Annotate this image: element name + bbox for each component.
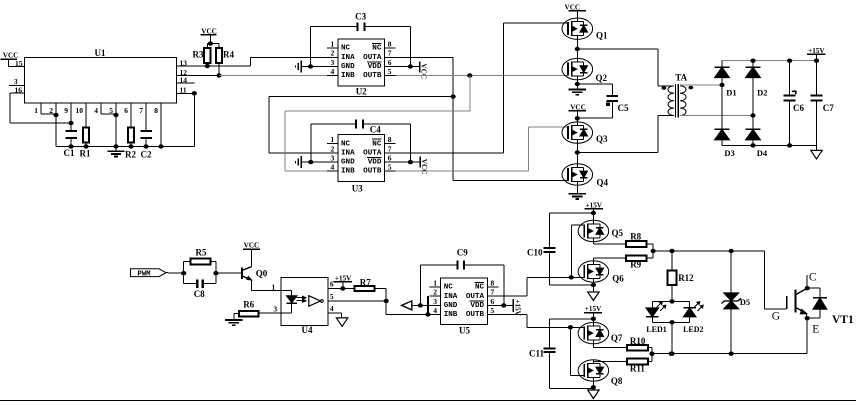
- wire R5/C8 right leg: [213, 262, 218, 284]
- svg-text:NC: NC: [341, 45, 351, 53]
- svg-text:7: 7: [388, 49, 392, 58]
- node R12/LED loop: [669, 299, 674, 303]
- wire emitter down: [806, 318, 808, 354]
- svg-text:Q3: Q3: [596, 134, 608, 144]
- svg-text:R8: R8: [630, 231, 641, 241]
- resistor R9: [626, 255, 646, 269]
- wire U2 OUTA to junction: [396, 57, 453, 180]
- svg-text:C1: C1: [64, 148, 75, 158]
- svg-text:3: 3: [273, 304, 277, 313]
- svg-text:3: 3: [331, 58, 335, 67]
- capacitor C3: [355, 12, 366, 32]
- svg-text:6: 6: [330, 279, 334, 288]
- ground (Q6, triangle): [588, 292, 599, 301]
- node OUTA/INA/Q4: [451, 94, 456, 98]
- svg-text:14: 14: [180, 75, 188, 84]
- resistor R8: [626, 231, 646, 247]
- wire pin15 to U1: [8, 66, 24, 68]
- U1 pin 10 number: [76, 106, 84, 115]
- svg-text:Q7: Q7: [611, 333, 623, 343]
- wire pin4 to pin5: [101, 113, 116, 115]
- svg-text:1: 1: [272, 282, 276, 291]
- svg-text:LED2: LED2: [683, 325, 703, 334]
- node OUTB branch (gray): [467, 73, 472, 77]
- wire C11 bottom to Q8 source: [550, 352, 594, 389]
- svg-text:U1: U1: [95, 48, 106, 58]
- svg-text:1: 1: [331, 40, 335, 49]
- svg-text:7: 7: [139, 106, 143, 115]
- wire pin1 to pin2: [41, 113, 56, 115]
- svg-text:8: 8: [388, 135, 392, 144]
- svg-text:4: 4: [331, 163, 335, 172]
- ground (R6): [225, 314, 242, 326]
- wire U5 OUTA to gate node: [498, 277, 584, 296]
- svg-text:C2: C2: [141, 150, 152, 160]
- wire Q2 source: [575, 80, 580, 90]
- ground (U1 pin5): [107, 147, 124, 157]
- ic U1: [25, 48, 177, 103]
- wire U4 pin6: [328, 286, 355, 290]
- svg-text:C8: C8: [194, 289, 205, 299]
- svg-text:R6: R6: [243, 299, 254, 309]
- wire gate drive line: [653, 249, 764, 253]
- svg-text:C3: C3: [355, 12, 366, 22]
- wire node down to U5 inputs: [386, 301, 428, 315]
- wire Q6 source: [591, 282, 596, 292]
- svg-text:INA: INA: [341, 150, 355, 158]
- svg-text:C4: C4: [370, 125, 381, 135]
- resistor R5: [184, 247, 216, 264]
- wire +15V to C10: [550, 213, 594, 248]
- svg-text:2: 2: [331, 49, 335, 58]
- svg-text:D5: D5: [740, 297, 750, 307]
- ic U2 (driver): [327, 39, 396, 97]
- svg-text:R10: R10: [630, 336, 646, 346]
- wire bottom gate-return line: [652, 352, 807, 356]
- wire U3 OUTB to Q3 gate (gray): [396, 127, 569, 171]
- svg-text:16: 16: [15, 85, 23, 94]
- node pin16/C1/pin9: [68, 121, 73, 125]
- pin 3 stub: [9, 77, 25, 86]
- power port +15V (Q7): [584, 305, 602, 319]
- U1 pin5 wire down to rail: [113, 103, 118, 147]
- power port +15V (U4): [334, 275, 352, 289]
- svg-text:INA: INA: [341, 54, 355, 62]
- wire to U3 INA: [269, 97, 453, 153]
- wire Q7 source to R10: [593, 344, 627, 348]
- transistor Q4 (MOSFET): [562, 164, 609, 188]
- diode D3: [715, 85, 735, 158]
- svg-text:OUTB: OUTB: [363, 168, 382, 176]
- svg-text:5: 5: [388, 67, 392, 76]
- svg-text:2: 2: [49, 106, 53, 115]
- wire Q5 drain: [592, 213, 594, 220]
- svg-text:4: 4: [331, 67, 335, 76]
- capacitor C11: [529, 348, 556, 358]
- U1 pin8 wire: [160, 103, 162, 147]
- IGBT body diode: [807, 288, 827, 318]
- wire pin13 to U2 INA: [207, 57, 326, 66]
- transistor Q5 (MOSFET): [578, 220, 623, 241]
- svg-text:R1: R1: [80, 149, 91, 159]
- wire LED loop top: [652, 300, 689, 302]
- transistor Q8 (MOSFET): [578, 360, 623, 386]
- wire U5 OUTB down: [498, 314, 584, 327]
- wire Q8 source: [591, 381, 596, 390]
- U1 pin6 wire: [130, 103, 132, 128]
- svg-text:8: 8: [388, 40, 392, 49]
- wire Q3 drain: [576, 118, 578, 122]
- power port VCC (U1 pin 15): [1, 51, 19, 66]
- resistor R3: [193, 44, 211, 69]
- wire R10/R11 join: [648, 348, 655, 362]
- port PWM: [131, 269, 167, 279]
- svg-text:TA: TA: [675, 73, 687, 83]
- power port +15V (bridge): [807, 47, 825, 61]
- wire C9 right to VDD: [464, 265, 504, 305]
- svg-text:OUTB: OUTB: [466, 311, 485, 319]
- node Q5/Q6 gates: [569, 275, 574, 279]
- wire Q1 source to node: [576, 39, 578, 49]
- transistor Q6 (MOSFET): [578, 261, 624, 284]
- svg-text:1: 1: [34, 106, 38, 115]
- wire C3 right to VDD pin: [365, 27, 411, 67]
- wire Q0 emitter to U4 pin1: [252, 280, 282, 290]
- svg-text:VT1: VT1: [832, 314, 854, 326]
- svg-text:Q0: Q0: [256, 269, 268, 279]
- U1 pin 2 number: [49, 106, 53, 115]
- svg-text:NC: NC: [372, 140, 382, 148]
- U1 pin2 wire down to rail: [53, 103, 58, 147]
- tie bar INA-INB (U5): [425, 296, 430, 316]
- svg-text:10: 10: [76, 106, 84, 115]
- svg-text:6: 6: [124, 106, 128, 115]
- U1 pin 4 number: [94, 106, 98, 115]
- svg-text:5: 5: [388, 163, 392, 172]
- svg-text:C5: C5: [618, 103, 629, 113]
- node Q7/Q8 gates: [568, 325, 573, 329]
- svg-text:15: 15: [15, 59, 23, 68]
- ic U4 (optocoupler): [272, 278, 334, 335]
- wire C3 left to GND pin: [311, 27, 358, 67]
- ground (U5 GND, triangle rotated): [402, 301, 430, 310]
- LED inside U4: [281, 290, 297, 313]
- svg-text:NC: NC: [372, 45, 382, 53]
- pin 14 stub: [176, 75, 194, 84]
- svg-text:D2: D2: [757, 87, 767, 97]
- power port VCC (Q1): [565, 3, 586, 18]
- U1 pin 8 number: [154, 106, 158, 115]
- capacitor C5 (polarized): [607, 96, 629, 113]
- wire Q6 drain to R9: [593, 258, 626, 261]
- svg-text:9: 9: [64, 106, 68, 115]
- U1 pin 1 number: [34, 106, 38, 115]
- wire Q2 drain: [576, 49, 578, 58]
- svg-text:OUTA: OUTA: [466, 293, 485, 301]
- wire to Q0 base: [216, 272, 242, 274]
- svg-text:R4: R4: [223, 50, 234, 60]
- wire R5/C8 left leg: [183, 262, 185, 284]
- U1 pin4 stub: [100, 103, 102, 114]
- svg-text:4: 4: [433, 306, 437, 315]
- wire top rail (gray): [722, 59, 819, 63]
- power port VCC (Q0): [243, 242, 260, 267]
- wire to Q4 gate: [453, 179, 568, 181]
- svg-text:NC: NC: [444, 284, 454, 292]
- wire C10 bottom to Q6 source: [550, 252, 594, 285]
- svg-text:C9: C9: [457, 247, 468, 257]
- capacitor C6 (polarized): [784, 61, 805, 146]
- svg-text:7: 7: [388, 144, 392, 153]
- power port +15V (U5 VDD, rotated): [496, 299, 522, 316]
- LED LED2: [683, 301, 703, 334]
- wire pin16 down to C1 top: [10, 93, 71, 123]
- wire PWM to R5/C8: [166, 271, 186, 275]
- receiver inside U4: [309, 296, 324, 307]
- diode D5 (TVS): [722, 251, 751, 354]
- wire R8/R9 join: [646, 244, 655, 258]
- pin 16 stub: [10, 85, 25, 94]
- resistor R11: [627, 359, 648, 374]
- svg-text:C: C: [809, 272, 817, 284]
- svg-text:GND: GND: [341, 159, 355, 167]
- svg-text:C6: C6: [793, 103, 804, 113]
- svg-text:7: 7: [491, 288, 495, 297]
- LED LED1: [646, 301, 667, 334]
- wire LED loop to bottom line: [671, 322, 673, 353]
- capacitor C2: [140, 131, 152, 160]
- U1 pin1 stub: [40, 103, 42, 114]
- transistor Q2 (MOSFET): [562, 58, 608, 82]
- transistor Q3 (MOSFET): [562, 122, 608, 144]
- capacitor C9: [457, 247, 468, 269]
- power port VCC (U2 VDD, rotated): [396, 61, 428, 79]
- wire R3/R4 tops: [207, 41, 219, 45]
- svg-text:C10: C10: [527, 248, 543, 258]
- ground (Q8, triangle): [588, 390, 599, 399]
- svg-text:C7: C7: [823, 103, 834, 113]
- svg-text:6: 6: [388, 154, 392, 163]
- wire down to Q8 gate: [570, 327, 584, 375]
- svg-text:INB: INB: [341, 72, 355, 80]
- svg-text:VDD: VDD: [470, 302, 484, 310]
- wire Q4 drain: [576, 153, 578, 164]
- svg-text:VDD: VDD: [368, 63, 382, 71]
- wire R7 to output node: [374, 289, 386, 301]
- svg-text:5: 5: [330, 292, 334, 301]
- diode D2: [746, 61, 768, 118]
- power port +15V (Q5): [585, 201, 603, 213]
- wire up to Q5 gate: [571, 225, 584, 277]
- svg-text:D1: D1: [726, 87, 736, 97]
- svg-text:2: 2: [433, 288, 437, 297]
- svg-text:8: 8: [491, 278, 495, 287]
- wire +15V to C11: [550, 319, 594, 349]
- svg-text:U4: U4: [302, 325, 313, 335]
- svg-text:3: 3: [331, 154, 335, 163]
- transistor VT1 (IGBT): [772, 272, 854, 336]
- svg-text:R2: R2: [125, 150, 136, 160]
- svg-text:R12: R12: [678, 273, 694, 283]
- svg-text:OUTA: OUTA: [363, 150, 382, 158]
- wire Q7 drain: [592, 319, 594, 323]
- svg-text:4: 4: [330, 304, 334, 313]
- svg-text:6: 6: [491, 297, 495, 306]
- pin 11 stub: [176, 86, 197, 96]
- svg-text:R9: R9: [630, 260, 641, 270]
- svg-text:U2: U2: [356, 87, 367, 97]
- svg-text:Q1: Q1: [596, 31, 608, 41]
- svg-text:GND: GND: [444, 302, 458, 310]
- svg-text:LED1: LED1: [646, 325, 666, 334]
- svg-text:D4: D4: [757, 148, 768, 158]
- svg-text:4: 4: [94, 106, 98, 115]
- svg-text:OUTB: OUTB: [363, 72, 382, 80]
- diode D1: [715, 61, 737, 98]
- U1 pin 9 number: [64, 106, 68, 115]
- resistor R6: [239, 299, 259, 316]
- transistor Q7 (MOSFET): [578, 322, 623, 343]
- svg-text:1: 1: [433, 278, 437, 287]
- svg-text:NC: NC: [341, 140, 351, 148]
- svg-text:5: 5: [109, 106, 113, 115]
- svg-text:INB: INB: [341, 168, 355, 176]
- wire U2 OUTB to Q2 gate (gray): [396, 75, 569, 77]
- capacitor C7: [811, 61, 835, 146]
- svg-text:2: 2: [331, 144, 335, 153]
- svg-text:R7: R7: [360, 277, 371, 287]
- resistor R10: [627, 336, 648, 351]
- resistor R1: [80, 128, 91, 159]
- wire R6 to U4 pin3: [258, 312, 281, 314]
- svg-text:VCC: VCC: [420, 159, 428, 175]
- power port VCC (Q3): [569, 104, 586, 119]
- capacitor C10: [527, 248, 556, 258]
- U1 pin10 wire: [85, 103, 87, 128]
- svg-text:1: 1: [331, 135, 335, 144]
- svg-text:Q2: Q2: [596, 73, 608, 83]
- ground (U2 GND, rotated): [296, 61, 327, 73]
- wire bottom rail: [722, 143, 817, 147]
- wire Q5 source to R8: [593, 242, 626, 244]
- svg-text:11: 11: [180, 86, 187, 95]
- ground (U4 pin4, triangle): [336, 318, 347, 327]
- resistor R7: [355, 277, 375, 291]
- svg-text:Q8: Q8: [611, 376, 623, 386]
- power port VCC (R3 R4): [200, 27, 217, 43]
- ic U3 (driver): [327, 135, 396, 194]
- svg-text:C11: C11: [529, 349, 545, 359]
- U1 pin 5 number: [109, 106, 113, 115]
- wire secondary top to D1 (gray): [680, 84, 722, 86]
- resistor R4: [216, 44, 235, 78]
- transistor Q1 (MOSFET): [562, 18, 608, 41]
- wire node to transformer primary top: [577, 49, 674, 86]
- wire LED loop bottom: [652, 320, 689, 324]
- svg-text:Q6: Q6: [612, 273, 624, 283]
- transformer TA: [662, 73, 694, 118]
- U1 pin 7 number: [139, 106, 143, 115]
- bottom rail of U1: [56, 144, 194, 148]
- wire secondary bottom to D2 (gray): [680, 115, 753, 117]
- svg-text:GND: GND: [341, 63, 355, 71]
- ground (Q2 source): [569, 90, 586, 95]
- ground (U3 GND, rotated): [296, 156, 327, 168]
- svg-text:Q5: Q5: [612, 228, 624, 238]
- svg-text:8: 8: [154, 106, 158, 115]
- wire C4 left to GND pin: [311, 124, 356, 162]
- svg-text:R3: R3: [193, 50, 204, 60]
- svg-text:R5: R5: [196, 247, 207, 257]
- svg-text:VCC: VCC: [420, 64, 428, 80]
- wire C5 bottom to VCC node: [577, 101, 612, 118]
- diode D4: [746, 116, 768, 159]
- U1 pin7 wire: [145, 103, 147, 131]
- svg-text:Q4: Q4: [597, 178, 609, 188]
- svg-text:3: 3: [433, 297, 437, 306]
- svg-text:6: 6: [388, 58, 392, 67]
- capacitor C1: [64, 123, 77, 158]
- wire pin12 to U2 INB (gray net): [219, 75, 327, 77]
- pin number 15: [15, 59, 23, 68]
- svg-text:OUTA: OUTA: [363, 54, 382, 62]
- capacitor C4: [356, 120, 381, 135]
- svg-text:PWM: PWM: [138, 270, 151, 278]
- svg-text:INB: INB: [444, 311, 458, 319]
- wire Q2 source to C5: [577, 84, 612, 96]
- bottom border line: [0, 400, 856, 402]
- svg-text:VDD: VDD: [368, 159, 382, 167]
- pin 12 stub: [176, 68, 219, 77]
- svg-text:INA: INA: [444, 293, 458, 301]
- node Q1/Q2: [575, 47, 580, 51]
- wire node to transformer primary bottom: [577, 116, 674, 153]
- U1 pin 6 number: [124, 106, 128, 115]
- wire Q8 drain to R11: [593, 360, 627, 362]
- node VCC/C5/Q3: [575, 116, 580, 120]
- wire U4 pin4 to ground: [328, 313, 342, 318]
- node Q3/Q4: [575, 150, 580, 154]
- wire C9 left to GND: [420, 265, 457, 305]
- svg-text:5: 5: [491, 306, 495, 315]
- node +15V/C11/Q7: [591, 317, 596, 321]
- opto arrows: [297, 296, 307, 302]
- wire OUTB to U3 INB (gray): [285, 76, 470, 172]
- power port VCC (U3 VDD, rotated): [396, 156, 429, 174]
- ic U5 (driver): [430, 278, 499, 335]
- transistor Q0 (NPN): [242, 267, 268, 280]
- U1 pin9 wire: [70, 103, 72, 131]
- pin 13 stub: [176, 58, 207, 67]
- svg-text:13: 13: [180, 58, 188, 67]
- ground (bridge, triangle): [811, 145, 822, 159]
- wire rail up to pin11: [193, 93, 195, 146]
- wire to IGBT gate: [765, 251, 787, 309]
- svg-text:G: G: [772, 310, 780, 322]
- wire Q4 source: [576, 185, 578, 194]
- svg-text:U5: U5: [459, 325, 470, 335]
- capacitor C8: [184, 279, 216, 299]
- node +15V/C10/Q5: [591, 211, 596, 215]
- svg-text:U3: U3: [352, 184, 363, 194]
- svg-text:D3: D3: [724, 148, 734, 158]
- ground (Q4 source): [569, 194, 586, 199]
- wire U4 pin5 to node: [328, 299, 389, 303]
- svg-text:R11: R11: [630, 363, 646, 373]
- svg-text:NC: NC: [475, 284, 485, 292]
- wire C4 right to VDD pin: [363, 124, 410, 162]
- resistor R2: [125, 128, 136, 160]
